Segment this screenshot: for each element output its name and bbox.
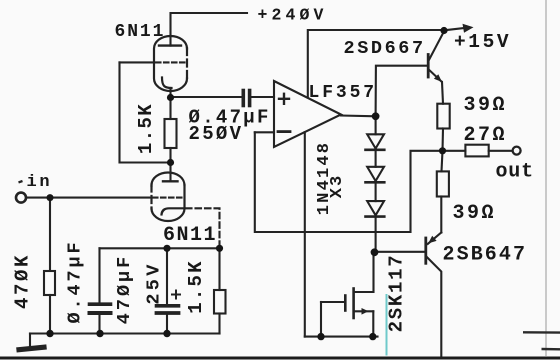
svg-text:2SB647: 2SB647 (443, 244, 528, 267)
svg-text:6N11: 6N11 (163, 224, 217, 247)
svg-text:39Ω: 39Ω (464, 94, 508, 117)
svg-text:+24ØV: +24ØV (258, 6, 328, 25)
svg-text:in: in (27, 173, 53, 192)
svg-text:+15V: +15V (454, 31, 511, 53)
svg-text:2SD667: 2SD667 (344, 38, 426, 59)
svg-text:LF357: LF357 (309, 83, 378, 103)
svg-text:25ØV: 25ØV (189, 123, 244, 145)
svg-text:47ØµF: 47ØµF (114, 254, 135, 325)
svg-text:1.5K: 1.5K (185, 259, 207, 313)
svg-text:X3: X3 (328, 174, 347, 198)
svg-text:1.5K: 1.5K (135, 103, 157, 154)
svg-text:6N11: 6N11 (115, 22, 166, 42)
svg-text:25V: 25V (144, 261, 165, 304)
svg-text:2SK117: 2SK117 (386, 254, 408, 333)
svg-text:out: out (496, 161, 534, 184)
svg-text:47ØK: 47ØK (12, 253, 34, 309)
svg-text:39Ω: 39Ω (453, 202, 497, 225)
svg-text:27Ω: 27Ω (464, 124, 508, 147)
svg-text:Ø.47µF: Ø.47µF (65, 239, 86, 323)
